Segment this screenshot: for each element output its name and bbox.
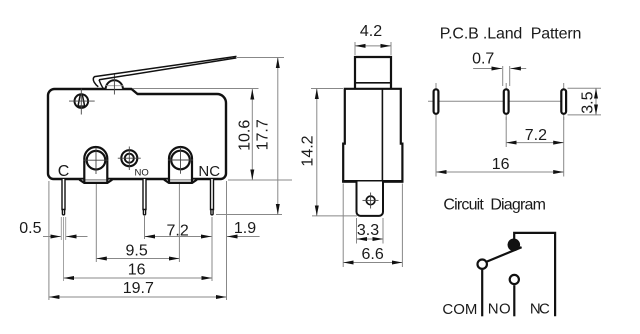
right terminal lug NC [164, 147, 197, 183]
left lug hole [87, 151, 106, 170]
ext lug C center [95, 184, 97, 262]
svg-text:P.C.B .Land Pattern: P.C.B .Land Pattern [440, 26, 582, 43]
dim 14.2 [316, 89, 318, 216]
pad middle [504, 89, 509, 114]
svg-text:7.2: 7.2 [166, 222, 188, 239]
svg-text:COM: COM [442, 301, 477, 318]
dim 9.5 [96, 258, 179, 260]
hinge bell rivet [78, 95, 85, 107]
NO terminal outer circle [121, 150, 137, 166]
NO crosshair [118, 157, 141, 159]
side body [343, 89, 402, 182]
svg-text:3.5: 3.5 [580, 91, 597, 113]
svg-text:NO: NO [134, 168, 148, 179]
ext 3.5 [568, 87, 602, 89]
pin C [62, 179, 65, 215]
dim 17.7 [277, 58, 279, 215]
ext line body bottom right [228, 179, 292, 181]
pad right [561, 89, 566, 114]
dim 16 pcb [436, 171, 564, 173]
pad left [434, 89, 439, 114]
NO terminal inner circle [125, 154, 134, 163]
dim 7.2 pcb [506, 142, 564, 144]
side terminal tab [357, 182, 384, 216]
svg-text:0.5: 0.5 [19, 220, 41, 237]
ext body left edge [48, 181, 50, 300]
side button base line [355, 82, 391, 84]
side body parting line [381, 89, 383, 182]
dim 19.7 [49, 296, 227, 298]
tab hole crosshair [363, 199, 379, 201]
right lug hole [171, 151, 190, 170]
svg-text:7.2: 7.2 [525, 127, 547, 144]
COM lead wire [481, 270, 483, 317]
svg-text:NC: NC [530, 301, 550, 318]
plunger hidden line [106, 85, 123, 87]
common contact dot [508, 239, 521, 252]
ext 14.2 top [311, 88, 343, 90]
svg-text:10.6: 10.6 [236, 120, 253, 151]
ext pin NC center [211, 217, 213, 281]
pad centerlines vertical [435, 83, 437, 120]
lever arm [95, 56, 237, 79]
svg-text:C: C [58, 163, 70, 180]
dim 16 [64, 277, 213, 279]
svg-text:17.7: 17.7 [254, 119, 271, 150]
hinge crosshair [69, 100, 95, 102]
svg-text:NO: NO [488, 301, 511, 318]
ext pin NO center [144, 216, 146, 239]
right lug crosshair [168, 159, 193, 161]
svg-text:19.7: 19.7 [123, 280, 154, 297]
hinge pin circle [75, 94, 89, 108]
NO lead wire [513, 285, 515, 316]
svg-text:9.5: 9.5 [125, 242, 147, 259]
svg-text:1.9: 1.9 [234, 220, 256, 237]
pads centerline horizontal [428, 100, 565, 102]
ext line body top [133, 88, 259, 90]
switch body outline [48, 89, 226, 179]
ext 7.2 [505, 117, 507, 147]
wire top [514, 233, 555, 316]
NO terminal circle [510, 275, 519, 284]
ext line pin bottom level [216, 214, 282, 216]
svg-text:0.7: 0.7 [472, 50, 494, 67]
svg-text:Circuit Diagram: Circuit Diagram [443, 197, 546, 214]
ext 6.6 [342, 184, 344, 268]
switch lever line [487, 247, 522, 261]
dim 6.6 [343, 262, 402, 264]
dim 4.2 [354, 42, 356, 55]
plunger button (half circle on top edge) [106, 80, 123, 89]
lever hook inner line [99, 80, 103, 89]
dim 0.7 [502, 66, 504, 86]
svg-text:16: 16 [492, 156, 510, 173]
side body bottom edge thick [342, 180, 403, 183]
svg-text:3.3: 3.3 [357, 222, 379, 239]
side button [355, 57, 391, 89]
left lug crosshair [84, 159, 109, 161]
dim 1.9 [227, 236, 260, 238]
ext body right edge [226, 181, 228, 300]
dim 7.2 [145, 236, 212, 238]
pin C extension lines [60, 217, 62, 240]
svg-text:14.2: 14.2 [300, 135, 317, 166]
left terminal lug C [79, 147, 112, 183]
pin NC [211, 179, 214, 215]
dim 10.6 [251, 89, 253, 180]
dim 3.5 [595, 88, 597, 115]
svg-text:4.2: 4.2 [360, 23, 382, 40]
ext line lever tip [237, 57, 284, 59]
ext 16 [435, 117, 437, 177]
ext 3.3 [356, 218, 358, 244]
lever hook at pivot [93, 77, 98, 87]
svg-text:16: 16 [128, 261, 146, 278]
plunger centerline [113, 74, 115, 95]
svg-text:6.6: 6.6 [361, 246, 383, 263]
ext lug NC center [178, 184, 180, 262]
svg-text:NC: NC [198, 163, 220, 180]
COM terminal circle [478, 260, 487, 269]
dim 3.3 [357, 238, 384, 240]
pin NO [143, 179, 146, 215]
tab hole [366, 196, 375, 205]
ext 14.2 bottom [312, 215, 357, 217]
